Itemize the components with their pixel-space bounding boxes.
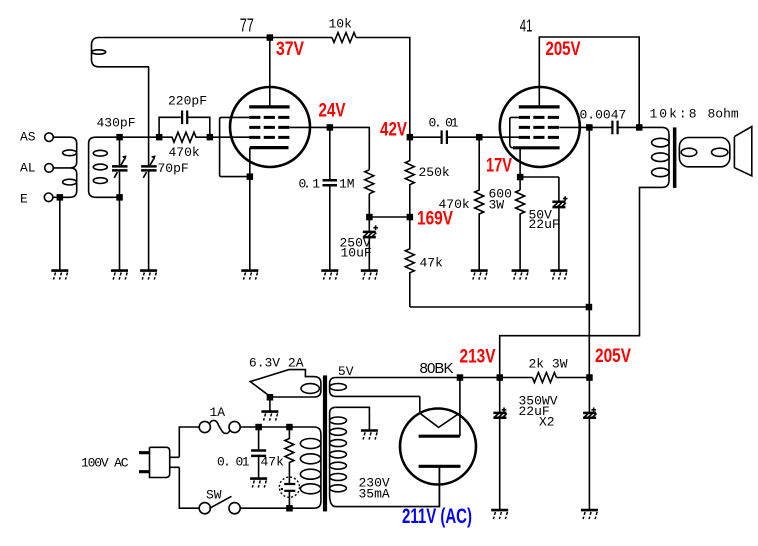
svg-text:205V: 205V xyxy=(546,39,581,60)
wire AS lead xyxy=(53,136,70,138)
node 41 grid xyxy=(476,134,483,141)
node rectifier output xyxy=(457,374,464,381)
ground (70pF) xyxy=(140,271,157,280)
svg-text:205V: 205V xyxy=(595,346,631,367)
AC plug P1 xyxy=(150,447,180,477)
svg-text:SW: SW xyxy=(206,488,222,503)
transformer T1 6.3V winding xyxy=(270,377,321,397)
svg-text:430pF: 430pF xyxy=(97,116,136,131)
svg-text:AS: AS xyxy=(20,130,36,145)
svg-text:77: 77 xyxy=(240,16,254,36)
ground (0.1) xyxy=(321,271,338,280)
capacitor C1 430pF variable xyxy=(119,137,121,166)
node 41 cathode junction xyxy=(517,174,524,181)
wire plate lead down xyxy=(438,466,440,506)
neon lamp NE xyxy=(279,477,299,497)
svg-text:1M: 1M xyxy=(339,176,355,191)
node 0.01 AC xyxy=(255,424,262,431)
resistor R3 250k xyxy=(405,137,414,217)
transformer T1 5V winding xyxy=(330,378,420,397)
svg-text:0. 1: 0. 1 xyxy=(299,176,321,191)
capacitor C6 0.01 coupling xyxy=(410,136,441,138)
node 213V xyxy=(497,374,504,381)
terminal AS xyxy=(45,133,54,142)
ground (22uF) xyxy=(550,271,567,280)
node 24V xyxy=(327,124,334,131)
ground (77 cathode) xyxy=(241,271,258,280)
plate RF coil L3 (top-left) xyxy=(92,38,150,67)
node 6.3V ground junction xyxy=(267,394,274,401)
capacitor C7 50V 22uF electrolytic xyxy=(558,177,560,201)
svg-text:22uF: 22uF xyxy=(529,217,560,232)
wire B+ row xyxy=(336,377,533,379)
transformer T2 primary 10k xyxy=(500,127,669,377)
capacitor C10 350WV 22uF (right) xyxy=(588,378,590,413)
inductor L2 tuning coil xyxy=(89,137,120,197)
tube 41 grid rows xyxy=(519,116,560,119)
wire 2k to 205V node xyxy=(556,377,589,379)
terminal AL xyxy=(45,164,54,173)
ground (C9) xyxy=(491,510,508,519)
node 77 cathode junction xyxy=(247,173,254,180)
wire cathode to bypass cap xyxy=(520,176,559,178)
wire fuse to primary xyxy=(240,426,289,428)
wire screen line down xyxy=(588,127,590,377)
ground (E) xyxy=(51,271,68,280)
wire AC bottom lead xyxy=(179,467,199,508)
svg-text:41: 41 xyxy=(520,16,533,36)
node 1M bottom xyxy=(366,214,373,221)
ground (HV top) xyxy=(361,431,378,440)
svg-text:E: E xyxy=(20,192,28,207)
svg-text:70pF: 70pF xyxy=(158,161,189,176)
node 430pF bottom xyxy=(116,194,123,201)
wire E lead xyxy=(53,196,60,198)
svg-text:211V (AC): 211V (AC) xyxy=(402,505,472,528)
fuse F1 1A xyxy=(199,421,210,432)
svg-text:AL: AL xyxy=(20,161,36,176)
tube 80BK filament bar xyxy=(419,435,460,438)
svg-text:169V: 169V xyxy=(417,209,453,230)
node screen/47k junction xyxy=(586,304,593,311)
tube U2 41 envelope xyxy=(500,87,580,167)
wire AL lead xyxy=(53,167,70,169)
svg-text:35mA: 35mA xyxy=(359,487,390,502)
wire 41 screen out to right xyxy=(559,126,589,128)
wire 41 plate lead up xyxy=(539,37,639,127)
tube 80BK filament V xyxy=(420,413,460,428)
svg-text:0.0047: 0.0047 xyxy=(580,108,627,123)
wire 169V row xyxy=(369,216,410,218)
wire 77 cathode down xyxy=(249,148,251,270)
ground (430pF) xyxy=(111,271,128,280)
svg-text:0. 01: 0. 01 xyxy=(217,455,250,470)
wire HV top to ground xyxy=(336,407,370,430)
transformer T2 core xyxy=(673,127,677,187)
svg-text:47k: 47k xyxy=(420,256,444,271)
wire 6.3V to ground xyxy=(269,397,271,411)
wire 47k to screen line xyxy=(410,306,589,308)
tube 41 plate xyxy=(519,105,560,108)
tube 80BK plate bar xyxy=(419,465,461,468)
tube 41 suppressor-cathode bracket xyxy=(510,117,519,147)
ground (C10) xyxy=(581,510,598,519)
svg-text:0. 01: 0. 01 xyxy=(429,116,459,131)
node plate/primary xyxy=(636,124,643,131)
transformer T1 primary 100V winding xyxy=(289,427,321,508)
ground (600) xyxy=(512,271,529,280)
capacitor C3 220pF xyxy=(159,117,210,137)
switch SW xyxy=(199,503,210,514)
svg-text:42V: 42V xyxy=(380,120,407,141)
tube U3 80BK envelope xyxy=(400,409,476,485)
wire B+ down to filament bar xyxy=(459,378,461,437)
node 42V xyxy=(407,134,414,141)
tube 77 plate xyxy=(249,105,289,108)
svg-text:10uF: 10uF xyxy=(341,245,372,260)
node 220pF left xyxy=(156,134,163,141)
capacitor C5 250V 10uF electrolytic xyxy=(368,217,370,231)
ground (10uF) xyxy=(361,271,378,280)
tube 77 grid rows xyxy=(249,116,289,119)
wire grid input to tube 41 xyxy=(479,136,519,138)
wire 6.3V fork xyxy=(250,370,313,397)
svg-text:37V: 37V xyxy=(276,39,304,60)
resistor R8 47k AC xyxy=(285,427,294,484)
speaker SP 8ohm xyxy=(734,127,751,176)
wire 41 cathode down xyxy=(519,148,521,190)
svg-text:47k: 47k xyxy=(261,455,285,470)
resistor R6 600 3W cathode xyxy=(516,190,525,270)
wire 5V lead to filament xyxy=(419,396,421,413)
wire 77 screen to 24V node xyxy=(290,127,370,169)
svg-text:470k: 470k xyxy=(169,145,200,160)
wire plate lead of 77 xyxy=(269,38,271,107)
transformer T2 secondary xyxy=(679,138,729,167)
svg-text:X2: X2 xyxy=(539,415,555,430)
capacitor C11 0.01 AC xyxy=(258,427,260,450)
svg-text:250k: 250k xyxy=(419,165,450,180)
ground (470k) xyxy=(471,271,488,280)
svg-text:2k 3W: 2k 3W xyxy=(529,357,568,372)
resistor R7 2k 3W xyxy=(532,373,556,383)
wire signal row 430pF to 220pF xyxy=(120,136,160,138)
svg-text:213V: 213V xyxy=(460,347,496,368)
node plate 77 / bus junction xyxy=(267,34,274,41)
tube 77 cathode xyxy=(250,146,289,149)
tube 41 cathode xyxy=(513,146,560,149)
resistor R1 470k grid leak xyxy=(159,132,210,142)
resistor R4 47k xyxy=(405,217,414,307)
svg-text:1A: 1A xyxy=(210,405,226,420)
svg-text:100V AC: 100V AC xyxy=(81,456,129,471)
svg-text:8ohm: 8ohm xyxy=(708,107,739,122)
wire bus from 10k to corner xyxy=(356,38,410,138)
transformer T1 HV winding 230V xyxy=(330,407,440,506)
node 220pF right xyxy=(207,134,214,141)
node 430pF top xyxy=(116,134,123,141)
wire grid input to tube 77 xyxy=(210,136,250,138)
node 47k AC xyxy=(286,424,293,431)
node 205V xyxy=(586,374,593,381)
svg-text:10k:8: 10k:8 xyxy=(650,107,697,122)
node screen xyxy=(586,124,593,131)
node AC bottom xyxy=(286,505,293,512)
tube 77 suppressor-cathode bracket xyxy=(220,117,250,176)
wire top bus from coil to 10k xyxy=(99,37,332,39)
resistor R 10k xyxy=(332,33,356,43)
wire E to ground xyxy=(59,197,61,270)
wire switch to primary xyxy=(240,507,289,509)
svg-text:80BK: 80BK xyxy=(420,360,454,377)
tube U1 77 envelope xyxy=(230,87,310,167)
transformer T1 core xyxy=(323,375,327,511)
svg-text:6.3V 2A: 6.3V 2A xyxy=(249,355,304,370)
ground (0.01 AC) xyxy=(250,479,267,488)
inductor L1 antenna coil xyxy=(60,137,77,197)
resistor R2 1M xyxy=(365,170,374,194)
svg-text:5V: 5V xyxy=(338,364,354,379)
capacitor C9 350WV 22uF (left) xyxy=(499,378,501,413)
terminal E xyxy=(44,193,53,202)
capacitor C4 0.1 screen bypass xyxy=(329,127,331,179)
node E junction xyxy=(57,194,64,201)
node 169V xyxy=(407,214,414,221)
svg-text:17V: 17V xyxy=(486,156,512,177)
svg-text:10k: 10k xyxy=(329,17,353,32)
ground (6.3V) xyxy=(261,412,278,421)
svg-text:24V: 24V xyxy=(319,101,346,122)
svg-text:3W: 3W xyxy=(489,198,505,213)
svg-text:220pF: 220pF xyxy=(168,94,207,109)
capacitor C8 0.0047 xyxy=(589,126,612,128)
resistor R5 470k grid leak 41 xyxy=(475,137,484,270)
capacitor C2 70pF variable xyxy=(148,67,150,166)
wire AC top lead xyxy=(179,427,199,457)
